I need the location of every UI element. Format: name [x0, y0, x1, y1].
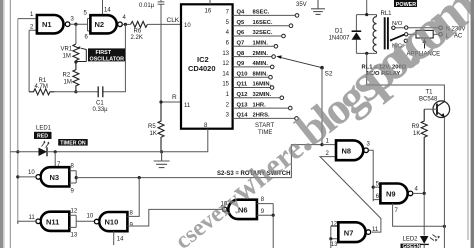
svg-text:12: 12	[222, 61, 229, 67]
svg-text:10: 10	[87, 214, 94, 220]
svg-text:RED: RED	[37, 134, 48, 140]
svg-text:1M: 1M	[64, 80, 72, 86]
svg-text:11: 11	[29, 215, 36, 221]
svg-text:4.7M: 4.7M	[35, 84, 48, 90]
svg-text:Q14: Q14	[237, 113, 249, 119]
potentiometer VR1	[61, 24, 87, 61]
svg-text:VR1: VR1	[61, 47, 73, 53]
svg-text:LED1: LED1	[36, 126, 52, 132]
svg-text:FIRST: FIRST	[96, 50, 112, 56]
wire: N11 inputs to N10 output	[76, 220, 94, 222]
svg-text:1HR.: 1HR.	[253, 102, 267, 108]
relay RL1 coil	[373, 11, 392, 53]
svg-text:Q6: Q6	[237, 30, 246, 36]
node: relay rail top junction	[365, 13, 368, 16]
node Q7 output row (1MIN. contact)	[226, 41, 278, 49]
wire: N2 input bracket	[88, 19, 91, 32]
svg-text:16SEC.: 16SEC.	[253, 20, 273, 26]
wire: N3 input bracket	[69, 171, 76, 183]
label START TIME	[255, 123, 274, 136]
terminal N 230V	[439, 26, 466, 32]
svg-text:16: 16	[205, 9, 212, 15]
svg-text:N9: N9	[386, 190, 396, 199]
svg-text:N3: N3	[50, 173, 60, 182]
node Q5 output row (16SEC. contact)	[226, 20, 293, 28]
svg-text:32MIN.: 32MIN.	[253, 92, 272, 98]
wire: left rail B (N1 pin1 / N3 out / N11 out feedback rail)	[17, 19, 19, 224]
nand gate N9	[380, 184, 412, 204]
svg-text:R6: R6	[134, 29, 142, 35]
svg-text:Q7: Q7	[237, 41, 245, 47]
node: N3 input junction	[75, 176, 78, 179]
wire: N3 input row to N8 pin1 elbow	[76, 145, 322, 178]
wire: N6 input down to bottom edge	[272, 215, 274, 248]
wire: N11 input bracket	[69, 215, 76, 227]
right page border bar	[471, 0, 474, 248]
svg-text:11: 11	[184, 103, 191, 109]
nand gate N10 (mirrored)	[94, 212, 127, 231]
svg-text:10: 10	[28, 170, 35, 176]
wire: pin8 stub down to ground line	[162, 129, 208, 152]
capacitor 0.01u (top, reset network)	[139, 0, 164, 102]
wire: feedback down from N2 out to C1	[103, 24, 126, 91]
svg-text:4MIN.: 4MIN.	[253, 61, 269, 67]
watermark blog URL	[152, 0, 474, 248]
wire: relay bottom to T1 collector	[367, 53, 445, 101]
resistor R9	[412, 109, 428, 193]
svg-text:8SEC.: 8SEC.	[253, 10, 270, 16]
wire: pin16 stub up	[209, 0, 211, 4]
svg-text:16MIN.: 16MIN.	[253, 82, 272, 88]
svg-text:35V: 35V	[296, 2, 307, 8]
svg-text:14: 14	[117, 237, 124, 243]
LED LED1	[34, 126, 52, 157]
node: N9 output junction	[423, 192, 426, 195]
svg-text:IC2: IC2	[197, 55, 209, 64]
svg-text:N8: N8	[342, 146, 352, 155]
wire: N3 pin7 stub up to ground row	[54, 152, 56, 167]
svg-text:11: 11	[372, 227, 379, 233]
node Q11 output row (16MIN. contact)	[222, 82, 273, 90]
wire: N1 out to node and N2 inputs	[70, 23, 88, 25]
svg-text:N10: N10	[105, 218, 119, 227]
label RL1 spec	[362, 65, 407, 77]
switch S2 wiper arrow	[276, 55, 333, 77]
wire: N9 out to R9 node	[413, 192, 424, 194]
svg-text:Q4: Q4	[237, 10, 246, 16]
svg-text:1K: 1K	[150, 131, 157, 137]
wire: N9 input stubs	[373, 187, 380, 200]
label box POWER	[394, 0, 417, 8]
node: N8 pin1 junction with S2 pole	[320, 143, 323, 146]
wire: R6 to IC2 pin10 (CLK)	[147, 23, 181, 25]
svg-text:TIME: TIME	[258, 130, 272, 136]
svg-text:1K: 1K	[413, 131, 420, 137]
wire: left rail A (top edge down to LED1 row)	[9, 0, 11, 248]
wire: reset node to IC2 pin11	[161, 101, 181, 103]
svg-text:N7: N7	[344, 228, 354, 237]
wire: pole to appliance box	[408, 33, 416, 35]
svg-text:R5: R5	[148, 124, 156, 130]
node: R2 bottom junction	[74, 90, 77, 93]
nand gate N2	[90, 15, 122, 33]
node: N2 output / C1 feedback junction	[124, 23, 127, 26]
node Q9 output row (4MIN. contact)	[222, 61, 274, 69]
svg-text:0.01µ: 0.01µ	[139, 3, 155, 9]
node: oscillator node A (N1 out / N2 in / VR1 top)	[74, 23, 77, 26]
wire: ground/LED1 row	[10, 151, 161, 153]
svg-text:D1: D1	[335, 29, 343, 35]
svg-text:TIMER ON: TIMER ON	[60, 140, 86, 146]
node: N7 input junction	[329, 237, 332, 240]
nand gate N1	[37, 15, 70, 33]
ground symbol (top right)	[311, 0, 325, 14]
nand gate N8	[336, 140, 368, 160]
svg-text:T1: T1	[426, 90, 434, 96]
wire: appliance to L terminal	[433, 33, 439, 35]
node: N6 input junction	[272, 214, 275, 217]
wire: N8 out down to N9 inputs	[368, 150, 373, 201]
svg-text:2.2K: 2.2K	[131, 35, 143, 41]
svg-text:1N4007: 1N4007	[329, 36, 351, 42]
svg-text:Q11: Q11	[237, 82, 248, 88]
svg-text:BC548: BC548	[419, 97, 438, 103]
svg-text:R: R	[172, 94, 177, 101]
wire: LED2 feed from N9 output node	[423, 193, 425, 235]
svg-text:Q5: Q5	[237, 20, 246, 26]
wire: N10 pin14 stub down	[113, 231, 115, 245]
wire: N2 out to R6	[122, 23, 130, 25]
nand gate N11 (mirrored)	[36, 212, 69, 231]
svg-text:32SEC.: 32SEC.	[253, 30, 273, 36]
svg-text:14: 14	[222, 71, 229, 77]
resistor R6	[131, 21, 148, 41]
capacitor C1	[93, 86, 109, 113]
wire: S2 pole down to N8 pin1	[321, 68, 323, 145]
svg-text:1M: 1M	[63, 54, 71, 60]
svg-text:14: 14	[104, 8, 111, 14]
wire: R1 right to R2 node to C1	[54, 91, 98, 93]
svg-text:Q8: Q8	[237, 51, 246, 57]
svg-text:2MIN.: 2MIN.	[253, 51, 269, 57]
svg-text:CLK: CLK	[167, 17, 180, 24]
svg-text:13: 13	[222, 51, 229, 57]
nand gate N3 (mirrored)	[36, 167, 69, 186]
resistor R2	[63, 62, 79, 92]
resistor R5	[148, 102, 164, 152]
node: relay rail bottom junction	[365, 52, 368, 55]
svg-text:RL1: RL1	[381, 11, 393, 17]
svg-text:N11: N11	[46, 217, 59, 226]
node Q6 output row (32SEC. contact)	[226, 30, 286, 38]
svg-text:Q12: Q12	[237, 92, 248, 98]
resistor R1	[29, 78, 54, 95]
appliance box	[407, 30, 441, 57]
svg-text:15: 15	[222, 82, 229, 88]
wire: N10 pin8 up to N3 row tap	[127, 178, 139, 217]
op IC2 CD4020 box	[181, 4, 233, 128]
wire: N11 out to rail B	[18, 221, 36, 223]
node Q12 output row (32MIN. contact)	[226, 92, 284, 100]
wire: N10 pin9 to N6 output	[127, 209, 222, 226]
node Q13 output row (1HR. contact)	[226, 102, 292, 110]
node: rail B / LED row junction	[16, 150, 19, 153]
node: VR1 bottom / R2 top	[74, 60, 77, 63]
LED LED2	[401, 235, 441, 248]
wire: N7 input bracket	[331, 226, 339, 239]
svg-text:2HRS.: 2HRS.	[253, 113, 270, 119]
svg-text:Q10: Q10	[237, 71, 248, 77]
svg-text:R2: R2	[63, 73, 71, 79]
wire: pin14 stub up from N2	[102, 0, 104, 15]
svg-text:GREEN: GREEN	[403, 244, 421, 248]
wire: T1 emitter rail down	[443, 117, 445, 248]
wire: N3 out to rail B	[18, 176, 36, 178]
label box FIRST OSCILLATOR	[88, 48, 125, 62]
svg-text:OSCILLATOR: OSCILLATOR	[90, 56, 125, 62]
wire: right rail (cropped)	[467, 10, 469, 240]
node: R5 bottom / ground junction	[160, 150, 163, 153]
svg-text:13: 13	[71, 233, 78, 239]
svg-text:10: 10	[184, 23, 191, 29]
left page border bar	[0, 0, 3, 248]
node Q14 output row (2HRS. contact)	[226, 113, 299, 121]
svg-text:S2: S2	[325, 71, 333, 78]
label box TIMER ON	[58, 139, 87, 146]
svg-text:12: 12	[71, 209, 78, 215]
node Q10 output row (8MIN. contact)	[222, 71, 272, 79]
svg-text:LED2: LED2	[403, 237, 419, 243]
svg-text:C1: C1	[96, 101, 104, 107]
svg-text:CD4020: CD4020	[188, 64, 216, 73]
ground symbol (main)	[154, 152, 170, 168]
svg-text:0.33µ: 0.33µ	[93, 107, 109, 113]
transistor T1 BC548	[419, 90, 450, 118]
wire: N1 pin2 from R1 vertical	[29, 30, 37, 92]
wire: N1 pin1 from rail B	[18, 18, 37, 20]
terminal L AC	[439, 33, 463, 40]
svg-text:R9: R9	[412, 124, 420, 130]
svg-text:N2: N2	[95, 20, 105, 29]
relay contacts N/O N/C with armature	[390, 21, 439, 49]
svg-text:Q13: Q13	[237, 102, 249, 108]
wire: N9 pin7 down and right to emitter rail	[393, 203, 445, 226]
nand gate N6 (mirrored)	[222, 200, 257, 219]
wire: into N8 pin1	[322, 144, 336, 146]
svg-text:Q9: Q9	[237, 61, 246, 67]
wire: relay bottom rail	[356, 52, 376, 54]
wire: N7 input down to bottom edge	[330, 239, 332, 248]
wire: N6 input bracket	[257, 204, 273, 216]
node Q4 output row (8SEC. contact)	[226, 10, 299, 18]
node: rail B / N3 output junction	[16, 175, 19, 178]
svg-text:1MIN.: 1MIN.	[253, 41, 269, 47]
wire: supply feed down to relay rail	[366, 0, 368, 15]
wire: N8 pin2 to diagonal from N7 output	[320, 157, 381, 233]
svg-text:8MIN.: 8MIN.	[253, 71, 269, 77]
svg-text:N1: N1	[42, 20, 52, 29]
node: LED1 cathode junction	[54, 150, 57, 153]
wire: relay top rail	[356, 14, 376, 16]
node: emitter rail junction	[443, 225, 446, 228]
node: N9 pin5 junction	[372, 186, 375, 189]
svg-text:START: START	[255, 123, 274, 129]
diode D1 1N4007	[329, 15, 362, 54]
node: N10 pin8 tap junction	[138, 176, 141, 179]
nand gate N7	[338, 222, 370, 242]
node: reset junction	[159, 100, 162, 103]
node Q8 output row (2MIN. contact)	[222, 51, 275, 59]
